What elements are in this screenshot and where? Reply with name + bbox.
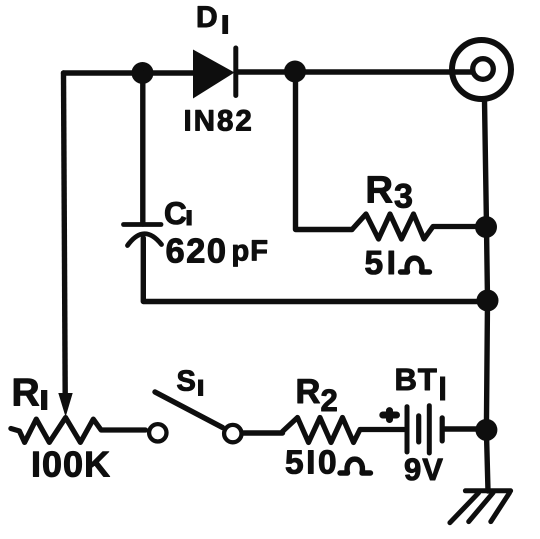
label R3 (368, 176, 392, 202)
connector J1 inner circle (473, 59, 494, 80)
label R2 (298, 379, 320, 403)
label C1 (165, 202, 186, 224)
ground symbol bar (465, 488, 510, 493)
diode D1 cathode bar (233, 48, 238, 96)
label 51 ohm (366, 251, 394, 274)
node junction dot at R3 branch on top wire (284, 61, 306, 83)
node junction dot at battery output (475, 419, 497, 441)
resistor R1 zigzag (11, 418, 146, 443)
node junction dot at D1 anode branch (132, 62, 154, 84)
label D1 (198, 6, 216, 27)
diode D1 triangle (193, 50, 235, 99)
wire battery right to junction (445, 426, 477, 431)
ohm symbol for R2 value (340, 459, 371, 473)
resistor R2 zigzag (283, 418, 405, 443)
label 1N82 (186, 110, 251, 131)
label R1 (14, 379, 39, 406)
switch S1 blade (155, 392, 223, 428)
wire switch to R2 (244, 430, 283, 435)
wire from C1 down and bottom horizontal to right vertical (143, 238, 486, 302)
node junction dot R3 right (475, 216, 497, 238)
switch S1 right contact circle (224, 425, 241, 442)
battery BT1 short plate 2 (440, 418, 445, 441)
wire top horizontal right segment (diode cathode to connector) (236, 69, 473, 74)
switch S1 left contact circle (149, 424, 166, 441)
wire right vertical (connector down to ground) (485, 100, 489, 491)
ground symbol slash 2 (469, 493, 493, 522)
node junction dot bottom wire right (477, 290, 499, 312)
ground symbol slash 3 (491, 493, 510, 522)
wire R3 branch vertical and horizontal (296, 72, 353, 230)
ohm symbol for R3 value (401, 258, 430, 272)
potentiometer R1 wiper arrow head (58, 393, 72, 417)
ground symbol slash 1 (450, 493, 479, 523)
wire top horizontal left segment (64, 70, 194, 75)
wire vertical from top junction down to C1 (140, 73, 145, 224)
capacitor C1 top plate (124, 222, 162, 227)
battery BT1 short plate 1 (416, 416, 421, 442)
label S1 (177, 370, 194, 391)
wire left vertical (to R1 wiper arrow) (64, 73, 66, 396)
resistor R3 zigzag (352, 214, 477, 239)
capacitor C1 bottom curved plate (128, 234, 162, 246)
label 620 pF (167, 238, 225, 262)
battery BT1 long plate 2 (427, 406, 432, 453)
label 9V (405, 458, 443, 480)
label BT1 (397, 369, 437, 390)
battery BT1 long plate 1 (405, 407, 410, 452)
label 510 ohm (286, 450, 335, 474)
label 100K (33, 451, 109, 477)
connector J1 outer circle (452, 40, 511, 99)
battery BT1 plus sign (383, 411, 397, 420)
